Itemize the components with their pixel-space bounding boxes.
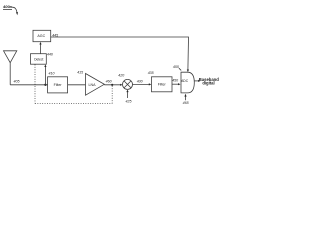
svg-text:AGC: AGC [37,34,45,38]
output wire [194,80,198,82]
arrowhead into detector bottom [44,64,46,67]
detector box U440 [31,54,47,64]
AGC box text [37,34,45,38]
svg-text:420: 420 [118,73,124,77]
svg-text:405: 405 [14,80,20,84]
ADC converter [181,72,194,93]
label 455 leader [179,68,181,70]
svg-text:digital: digital [202,81,214,86]
label 410 [49,72,55,76]
wire filter2 to ADC [172,83,178,85]
ADC text [181,79,189,83]
svg-text:460: 460 [106,80,112,84]
LO wire into mixer [127,92,129,98]
filter F410 [48,77,68,93]
wire filter to LNA [68,84,86,86]
figure label arrowhead [16,12,18,15]
filter F435 text [158,83,167,87]
LNA text [89,83,97,87]
svg-text:410: 410 [49,72,55,76]
svg-text:465: 465 [183,101,189,105]
output text Baseband digital [199,77,219,86]
filter F435 [152,77,173,92]
figure label underline [3,8,12,10]
arrowhead into mixer bottom [126,90,128,93]
svg-text:LNA: LNA [89,83,97,87]
arrowhead into ADC bottom [184,94,186,97]
figure label curved arrow [12,7,17,12]
label 435 [148,71,154,75]
label 405 [14,80,20,84]
main wire antenna to filter [10,84,47,86]
label 445 [52,34,58,38]
ADC clock wire [185,96,187,100]
dotted bypass wire bottom horizontal [35,103,112,105]
label 450 [172,79,178,83]
antenna [4,51,17,63]
wire mixer to filter2 [133,83,150,85]
svg-text:415: 415 [77,71,83,75]
antenna stem wire [9,63,11,85]
label 460 [106,80,112,84]
svg-text:Filter: Filter [158,83,167,87]
svg-text:425: 425 [126,100,132,104]
filter F410 text [54,83,63,87]
label 465 [183,101,189,105]
arrowhead into ADC [178,83,181,85]
svg-text:Detect: Detect [34,58,43,62]
svg-text:Filter: Filter [54,83,63,87]
detector tap wire [44,67,46,85]
svg-text:450: 450 [172,79,178,83]
junction dot A [44,84,46,86]
wire LNA to mixer [104,84,120,86]
label 455 [173,65,179,69]
arrowhead into AGC bottom [39,42,41,45]
label 440 [47,52,53,56]
svg-text:455: 455 [173,65,179,69]
arrowhead into ADC top [187,70,189,73]
figure label 400a [2,4,13,9]
label 420 [118,73,124,77]
wire detector to AGC [40,44,42,53]
dotted bypass wire right vertical [111,85,113,104]
arrowhead into filter2 [149,83,152,85]
AGC control wire to ADC [51,36,60,38]
detector box text [34,58,43,62]
arrowhead into mixer [120,84,123,86]
output arrowhead [198,80,201,82]
svg-text:ADC: ADC [181,79,189,83]
label 425 [126,100,132,104]
LNA amplifier [86,74,105,96]
mixer cross [124,81,131,88]
label 430 [137,79,143,83]
junction dot B [111,84,113,86]
svg-text:400a: 400a [2,4,13,9]
label 415 [77,71,83,75]
AGC box U445 [33,30,51,41]
svg-text:430: 430 [137,79,143,83]
svg-text:440: 440 [47,52,53,56]
dotted bypass wire left vertical [34,65,36,104]
svg-text:435: 435 [148,71,154,75]
mixer X420 [123,79,133,89]
